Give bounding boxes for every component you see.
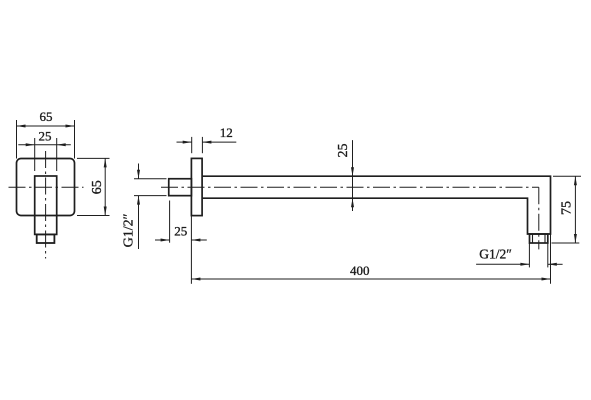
dimension 25 front: arrowheads (26, 143, 35, 146)
dimension 400 left extension line (flange edge) (190, 216, 192, 284)
G1/2 left: arrowheads (137, 170, 140, 179)
dimension 65 top: extension lines (16, 120, 18, 159)
G1/2 right: dimension/leader line (476, 263, 529, 265)
dimension 25 tube: arrowheads (351, 167, 354, 176)
svg-text:25: 25 (336, 144, 351, 158)
dimension 25 stub: arrowheads (161, 239, 170, 242)
dimension 75: arrowheads (574, 176, 577, 185)
horizontal centerline (front view) (9, 186, 84, 188)
arm vertical centerline (538, 187, 540, 249)
dimension 25 front: dimension line (18, 144, 71, 146)
shower arm tube outline (202, 176, 551, 234)
svg-text:25: 25 (39, 128, 52, 143)
G1/2 right: arrowheads (520, 263, 529, 266)
dimension 400 right extension line (leg edge) (550, 234, 552, 284)
svg-text:G1/2″: G1/2″ (479, 247, 512, 262)
G1/2 right: extension lines below nut (528, 243, 530, 267)
dimension 25 stub: extension line (169, 201, 171, 243)
svg-text:12: 12 (220, 125, 233, 140)
dimension 65 right side: dimension line (104, 158, 106, 215)
dimension 25 front: extension lines (34, 138, 36, 171)
svg-text:400: 400 (350, 263, 370, 278)
svg-text:65: 65 (40, 109, 53, 124)
G1/2 left: extension lines (134, 178, 167, 180)
G1/2 left: dimension line (138, 164, 140, 179)
side view wall flange (191, 158, 202, 215)
dimension 12: arrowheads (183, 141, 192, 144)
dimension 400: arrowheads (191, 278, 200, 281)
front view flange plate (rounded square) (17, 159, 75, 216)
dimension 25 tube: dimension line (352, 140, 354, 211)
arm horizontal centerline (161, 186, 539, 188)
arm end hex nut G1/2 (530, 234, 548, 243)
dimension 12: extension lines (191, 137, 193, 153)
dimension 75: extension lines (553, 175, 581, 177)
dimension 65 right side: arrowheads (104, 158, 107, 167)
svg-text:75: 75 (559, 201, 574, 215)
dimension 65 top: dimension line (17, 125, 75, 127)
svg-text:G1/2″: G1/2″ (121, 213, 136, 247)
svg-text:65: 65 (90, 180, 105, 194)
arm end nut thread lines (532, 234, 534, 243)
dimension 400: dimension line (191, 278, 550, 280)
front view hex nut (37, 234, 55, 243)
front view pipe body (35, 176, 57, 234)
dimension 65 right side: extension lines (77, 157, 110, 159)
dimension 12: dimension line (177, 141, 192, 143)
vertical centerline (front view) (45, 151, 47, 259)
dimension 65 top: arrowheads (17, 125, 26, 128)
dimension 25 stub: dimension line (155, 239, 170, 241)
dimension 75: dimension line (574, 176, 576, 243)
side view threaded wall stub G1/2 (169, 179, 192, 196)
svg-text:25: 25 (174, 223, 187, 238)
